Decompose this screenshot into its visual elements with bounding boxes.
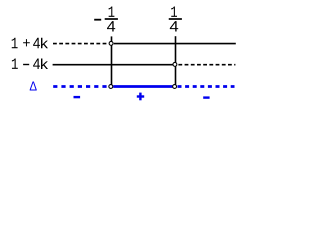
wire delta row blue dashed left segment [53,85,106,88]
row label "1 + 4k" glyph plus [23,39,30,46]
row label "1 + 4k" glyph 1 [12,38,18,49]
wire row1 dashed segment [53,43,109,45]
open circle node row1 at -1/4 [109,41,113,45]
node -1/4 label fraction bar [105,18,118,20]
node 1/4 label numerator glyph 1 [171,7,177,17]
open circle node row2 at 1/4 [173,62,177,66]
wire delta row blue dashed right segment [178,85,235,88]
wire delta row blue solid segment [113,85,172,88]
node -1/4 label numerator glyph 1 [109,7,115,17]
row label "1 - 4k" glyph 4 [33,59,40,69]
row label "1 + 4k" glyph 4 [33,38,40,48]
node -1/4 label denominator glyph 4 [107,21,115,31]
row label "1 - 4k" glyph 1 [12,59,18,69]
node 1/4 label denominator glyph 4 [170,21,178,31]
wire row1 solid segment [114,43,236,45]
sign plus middle vertical stroke [139,93,141,101]
row label "1 + 4k" glyph k [41,38,48,48]
sign plus middle horizontal stroke [137,95,144,97]
wire vertical line at 1/4 [175,36,177,84]
row label "1 - 4k" glyph minus [23,64,29,65]
sign minus left [74,96,81,98]
row label delta symbol [30,81,37,90]
open circle node delta row at 1/4 [173,85,177,89]
wire row2 dashed segment [178,64,235,66]
sign minus right [203,96,209,98]
node 1/4 label fraction bar [169,18,182,20]
open circle node delta row at -1/4 [109,85,113,89]
wire vertical line at -1/4 [111,36,113,84]
wire row2 solid segment [53,64,173,66]
node -1/4 label minus sign [94,19,101,21]
row label "1 - 4k" glyph k [41,59,48,69]
